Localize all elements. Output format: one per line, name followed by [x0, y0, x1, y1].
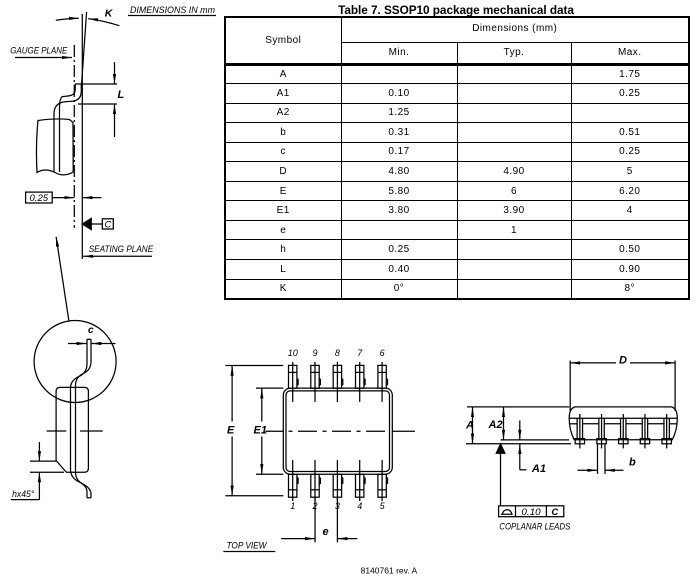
svg-text:5: 5: [380, 501, 386, 511]
svg-text:DIMENSIONS IN mm: DIMENSIONS IN mm: [130, 5, 215, 15]
svg-text:K: K: [105, 8, 114, 20]
svg-text:A: A: [465, 420, 474, 432]
svg-text:D: D: [619, 354, 627, 366]
svg-text:hx45°: hx45°: [12, 489, 35, 499]
svg-text:8140761 rev. A: 8140761 rev. A: [361, 566, 418, 575]
svg-text:8: 8: [335, 348, 340, 358]
svg-text:C: C: [551, 507, 558, 518]
svg-text:TOP VIEW: TOP VIEW: [227, 541, 268, 552]
svg-text:10: 10: [288, 348, 298, 358]
svg-text:2: 2: [311, 501, 317, 511]
svg-text:6: 6: [380, 348, 385, 358]
svg-text:4: 4: [357, 501, 362, 511]
svg-text:E1: E1: [254, 425, 267, 437]
svg-text:1: 1: [290, 501, 295, 511]
svg-text:0.10: 0.10: [521, 507, 541, 518]
svg-text:A1: A1: [531, 463, 546, 475]
svg-text:7: 7: [357, 348, 363, 358]
svg-text:GAUGE PLANE: GAUGE PLANE: [10, 45, 68, 56]
svg-text:E: E: [227, 425, 235, 437]
svg-text:L: L: [118, 89, 125, 101]
svg-text:c: c: [88, 325, 94, 336]
svg-text:C: C: [105, 220, 112, 231]
svg-text:SEATING PLANE: SEATING PLANE: [89, 244, 154, 255]
svg-text:0.25: 0.25: [30, 193, 50, 203]
svg-text:COPLANAR LEADS: COPLANAR LEADS: [499, 522, 571, 533]
svg-text:3: 3: [335, 501, 340, 511]
svg-text:e: e: [323, 526, 329, 538]
svg-text:9: 9: [312, 348, 317, 358]
svg-text:b: b: [629, 457, 636, 469]
svg-text:A2: A2: [488, 419, 503, 431]
